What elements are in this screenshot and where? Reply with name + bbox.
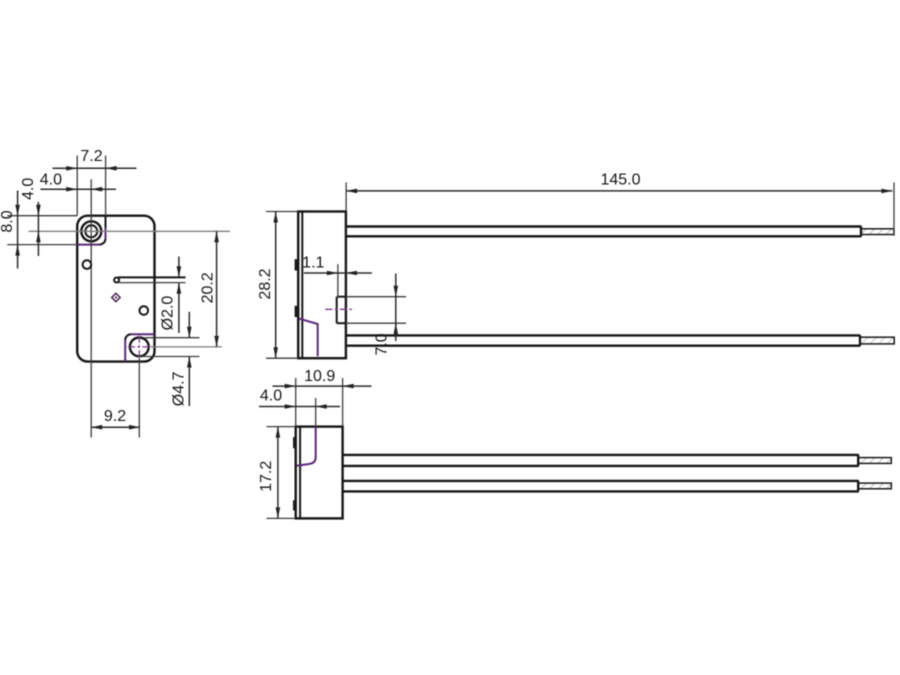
svg-text:Ø4.7: Ø4.7 [170,371,187,406]
svg-text:20.2: 20.2 [200,272,217,303]
svg-text:4.0: 4.0 [20,178,37,200]
svg-text:7.2: 7.2 [80,148,102,165]
svg-text:7.0: 7.0 [374,333,391,355]
svg-text:4.0: 4.0 [40,172,62,189]
svg-text:4.0: 4.0 [260,388,282,405]
svg-text:9.2: 9.2 [104,408,126,425]
svg-text:8.0: 8.0 [0,210,16,232]
svg-text:145.0: 145.0 [600,172,640,189]
svg-text:1.1: 1.1 [302,255,324,272]
svg-text:Ø2.0: Ø2.0 [160,296,177,331]
svg-text:10.9: 10.9 [304,368,335,385]
svg-text:17.2: 17.2 [258,461,275,492]
svg-text:28.2: 28.2 [257,268,274,299]
